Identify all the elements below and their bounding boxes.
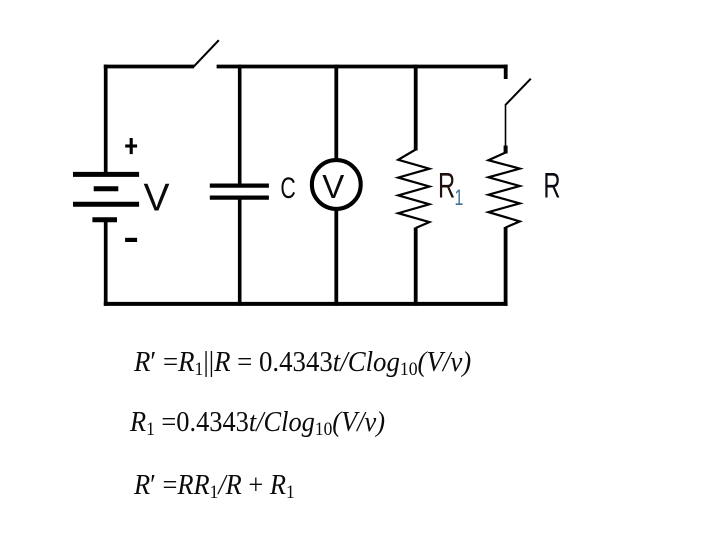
switch S2 stub from top rail bbox=[504, 65, 508, 79]
battery V top long plate bbox=[73, 172, 139, 177]
battery plus sign bbox=[125, 138, 137, 154]
wire resistor R bottom lead bbox=[504, 227, 508, 306]
wire voltmeter top lead bbox=[334, 65, 338, 160]
wire voltmeter bottom lead bbox=[334, 209, 338, 306]
battery V bottom short plate bbox=[92, 217, 117, 222]
resistor R top stub bbox=[504, 146, 508, 154]
voltmeter V meter circle bbox=[312, 160, 361, 209]
resistor R zigzag bbox=[488, 153, 519, 228]
svg-text:R: R bbox=[543, 167, 560, 206]
equation 1: R' = R1 parallel R formula bbox=[134, 346, 471, 381]
wire switch S2 to resistor R bbox=[505, 104, 507, 147]
capacitor C bottom plate bbox=[210, 196, 269, 200]
svg-text:1: 1 bbox=[455, 187, 464, 211]
wire top left segment bbox=[104, 65, 194, 69]
equation 3: R' combination formula bbox=[134, 469, 295, 504]
svg-text:V: V bbox=[144, 177, 170, 220]
wire battery bottom lead bbox=[104, 220, 108, 306]
wire resistor R1 top lead bbox=[414, 65, 418, 151]
wire capacitor bottom lead bbox=[238, 198, 242, 306]
wire top right segment bbox=[217, 65, 508, 69]
battery V upper short plate bbox=[94, 186, 119, 191]
capacitor C top plate bbox=[210, 184, 269, 188]
resistor R1 zigzag bbox=[398, 150, 429, 229]
battery minus sign bbox=[125, 238, 137, 242]
wire bottom rail bbox=[104, 302, 508, 306]
wire capacitor top lead bbox=[238, 65, 242, 186]
switch S2 blade bbox=[506, 79, 531, 105]
svg-text:R: R bbox=[438, 167, 455, 206]
equation 2: R1 formula bbox=[130, 406, 385, 441]
wire battery top lead bbox=[104, 65, 108, 174]
battery V lower long plate bbox=[73, 202, 139, 207]
switch S1 blade bbox=[194, 40, 219, 67]
svg-text:V: V bbox=[322, 168, 344, 205]
svg-text:C: C bbox=[280, 170, 295, 205]
wire resistor R1 bottom lead bbox=[414, 228, 418, 306]
